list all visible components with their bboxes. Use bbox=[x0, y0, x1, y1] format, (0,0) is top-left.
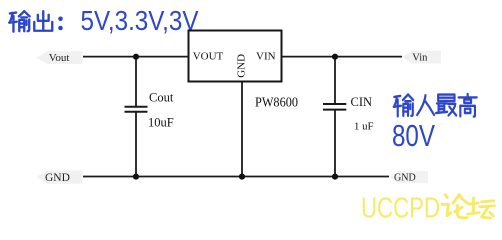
wire: CIN top bbox=[334, 57, 336, 104]
svg-text:PW8600: PW8600 bbox=[255, 95, 298, 110]
svg-text:UCCPD: UCCPD bbox=[361, 193, 440, 223]
junction: ground rail / IC GND bbox=[239, 174, 245, 180]
svg-text:Cout: Cout bbox=[149, 91, 174, 105]
port flag Vout bbox=[37, 51, 83, 64]
port flag Vin bbox=[402, 51, 441, 64]
junction: Vout node / Cout bbox=[133, 54, 139, 60]
junction: ground rail / Cout bbox=[133, 174, 139, 180]
svg-text:10uF: 10uF bbox=[148, 116, 174, 130]
svg-text:GND: GND bbox=[45, 172, 70, 184]
svg-text:CIN: CIN bbox=[351, 95, 373, 109]
op-amp U1 PW8600 regulator body bbox=[189, 31, 282, 82]
wire: VIN pin to Vin port bbox=[282, 56, 403, 58]
svg-text:5V,3.3V,3V: 5V,3.3V,3V bbox=[81, 5, 200, 36]
wire: Cout bottom bbox=[135, 112, 137, 177]
junction: Vin node / CIN bbox=[332, 54, 338, 60]
svg-text:80V: 80V bbox=[392, 118, 435, 153]
svg-text:1 uF: 1 uF bbox=[354, 120, 374, 132]
capacitor Cout bbox=[125, 107, 148, 112]
wire: CIN bottom bbox=[334, 110, 336, 177]
junction: ground rail / CIN bbox=[332, 174, 338, 180]
svg-text:GND: GND bbox=[394, 173, 416, 184]
annotation: output voltages (blue) bbox=[9, 11, 52, 31]
port flag GND right bbox=[389, 171, 428, 183]
port flag GND left bbox=[37, 171, 83, 184]
svg-text:VOUT: VOUT bbox=[193, 51, 224, 63]
wire: VOUT pin to Vout port bbox=[83, 56, 189, 58]
wire: bottom ground rail bbox=[83, 176, 389, 178]
wire: GND pin down bbox=[241, 82, 243, 177]
capacitor CIN bbox=[323, 104, 346, 110]
svg-text:Vin: Vin bbox=[412, 53, 428, 64]
svg-text:GND: GND bbox=[236, 54, 248, 78]
annotation: max input (blue) bbox=[394, 94, 477, 117]
wire: Cout top bbox=[135, 57, 137, 107]
svg-text:Vout: Vout bbox=[49, 52, 70, 64]
svg-text:VIN: VIN bbox=[256, 51, 276, 63]
